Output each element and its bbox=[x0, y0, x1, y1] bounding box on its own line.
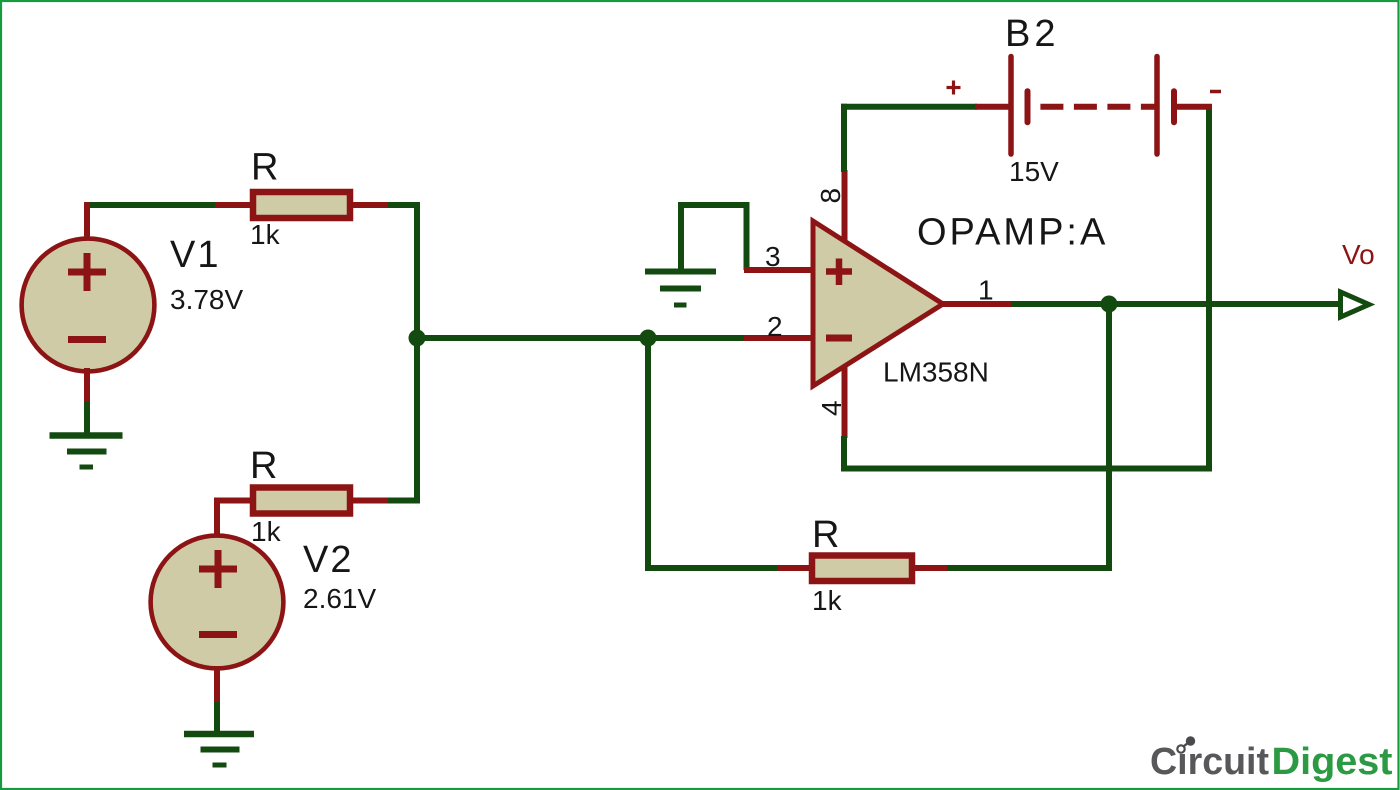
voltage source V2 bbox=[151, 536, 284, 669]
output terminal arrow bbox=[1341, 292, 1370, 317]
wire: op-amp pin 8 stub bbox=[842, 170, 848, 250]
ground (pin 3) bbox=[645, 272, 716, 306]
wire: R3 right up to output junction bbox=[947, 304, 1109, 568]
wire: V1 top pin stub bbox=[84, 202, 90, 240]
svg-text:Vo: Vo bbox=[1342, 239, 1375, 270]
svg-text:B2: B2 bbox=[1005, 13, 1059, 55]
wire: feedback left leg down to R3 bbox=[648, 338, 778, 568]
op-amp U1 LM358N bbox=[813, 221, 943, 386]
svg-text:1k: 1k bbox=[812, 585, 843, 616]
svg-text:1k: 1k bbox=[250, 219, 281, 250]
resistor R2 bbox=[253, 488, 350, 514]
node: output junction bbox=[1101, 296, 1118, 313]
wire: battery minus pin stub bbox=[1176, 104, 1212, 110]
wire: summing node to op-amp inverting input bbox=[417, 335, 780, 341]
wire: R1 to summing node and down to R2 bbox=[388, 205, 417, 501]
wire: battery positive horizontal bbox=[841, 104, 977, 110]
svg-text:R: R bbox=[812, 514, 839, 556]
wire: pin 8 up to battery positive bbox=[841, 104, 847, 172]
wire: ground to non-inverting input loop bbox=[681, 205, 747, 272]
wire: op-amp pin 3 stub bbox=[744, 267, 816, 273]
svg-text:1: 1 bbox=[978, 275, 994, 306]
svg-text:Cırcuit: Cırcuit bbox=[1150, 741, 1269, 783]
svg-text:OPAMP:A: OPAMP:A bbox=[917, 212, 1108, 254]
svg-text:3: 3 bbox=[765, 241, 781, 272]
svg-text:15V: 15V bbox=[1009, 156, 1059, 187]
svg-text:V1: V1 bbox=[170, 234, 220, 276]
svg-text:Digest: Digest bbox=[1272, 741, 1393, 783]
wire: R2 right pin stub bbox=[352, 498, 388, 504]
wire: op-amp pin 4 stub bbox=[842, 358, 848, 438]
svg-text:4: 4 bbox=[816, 400, 847, 416]
label battery minus sign bbox=[1210, 90, 1221, 94]
wire: R1 right pin stub bbox=[352, 202, 388, 208]
svg-text:8: 8 bbox=[815, 188, 846, 204]
wire: V1 top to R1 (net A) bbox=[87, 202, 218, 208]
ground (V1) bbox=[50, 436, 123, 468]
wire: V1 to ground bbox=[84, 401, 90, 434]
CircuitDigest logo bbox=[1150, 741, 1393, 783]
wire: battery plus pin stub bbox=[975, 104, 1010, 110]
battery B2 bbox=[1011, 57, 1174, 155]
wire: V2 bottom pin stub bbox=[214, 666, 220, 704]
svg-text:R: R bbox=[251, 147, 278, 189]
svg-text:2: 2 bbox=[767, 311, 783, 342]
svg-text:1k: 1k bbox=[251, 516, 282, 547]
wire: output to Vo terminal bbox=[1011, 301, 1339, 307]
wire: R3 right pin stub bbox=[912, 565, 949, 571]
wire: op-amp pin 2 stub bbox=[744, 335, 816, 341]
resistor R1 bbox=[253, 192, 350, 218]
wire: V1 bottom pin stub bbox=[84, 368, 90, 403]
svg-text:2.61V: 2.61V bbox=[303, 583, 376, 614]
svg-text:LM358N: LM358N bbox=[883, 357, 989, 388]
wire: R1 left pin stub bbox=[215, 202, 251, 208]
svg-text:R: R bbox=[250, 445, 277, 487]
wire: V2 top to R2 left bbox=[217, 501, 251, 539]
resistor R3 (feedback) bbox=[812, 556, 912, 582]
wire: V2 to ground bbox=[214, 702, 220, 733]
ground (V2) bbox=[184, 734, 254, 765]
label battery plus sign bbox=[947, 81, 961, 95]
node: summing junction bbox=[409, 330, 426, 347]
node: feedback junction bbox=[640, 330, 657, 347]
svg-text:3.78V: 3.78V bbox=[170, 284, 243, 315]
wire: op-amp pin 1 output stub bbox=[940, 301, 1013, 307]
wire: R3 left pin stub bbox=[777, 565, 813, 571]
wire: pin 4 down and along bottom to battery negative bbox=[844, 104, 1209, 469]
voltage source V1 bbox=[22, 239, 155, 372]
logo probe icon bbox=[1177, 736, 1195, 752]
svg-text:V2: V2 bbox=[303, 539, 353, 581]
